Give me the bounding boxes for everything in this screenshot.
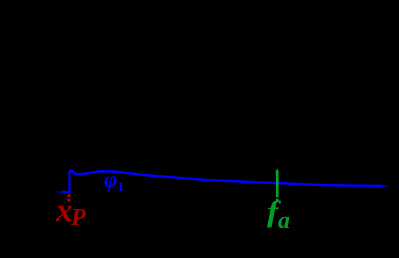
node: red dashed marker at x_P below curve — [67, 194, 70, 201]
label: f_a (green) — [267, 197, 290, 233]
label: phi_1 (blue) — [104, 168, 124, 193]
wire: blue curve phi_1 main branch — [69, 171, 383, 186]
wire: blue vertical jump at x_P — [68, 171, 70, 194]
wire: blue left branch of curve (faint, before jump) — [57, 191, 69, 194]
wire: dim tail end of blue curve — [383, 185, 388, 187]
node: green dashed arrow marker at f_a — [275, 168, 279, 201]
label: x_P (dark red) — [56, 195, 86, 230]
